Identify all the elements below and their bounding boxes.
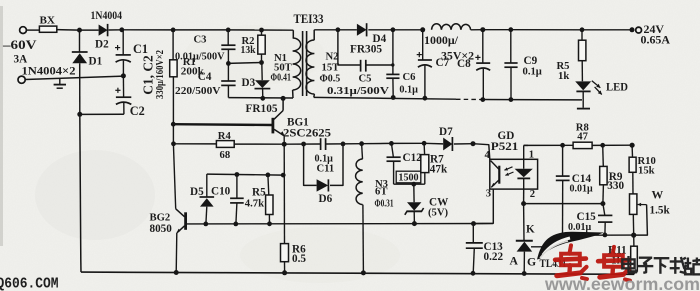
node C13 bottom	[471, 271, 476, 276]
capacitor C10	[236, 175, 238, 199]
resistor R11 1k	[633, 235, 635, 246]
svg-text:K: K	[526, 224, 535, 236]
svg-text:Φ0.41: Φ0.41	[271, 73, 292, 84]
svg-text:C7: C7	[436, 57, 450, 69]
node R2 bottom	[259, 60, 264, 65]
svg-text:2SC2625: 2SC2625	[283, 127, 331, 139]
svg-text:13k: 13k	[241, 45, 256, 56]
svg-text:C6: C6	[403, 72, 417, 83]
wire pin2 to R9 node	[524, 203, 603, 205]
wire C12 node to R7 node	[391, 142, 424, 144]
svg-text:15k: 15k	[638, 165, 655, 176]
wire emitter to C11	[284, 143, 320, 145]
svg-text:D2: D2	[95, 39, 109, 51]
svg-text:15T: 15T	[322, 63, 340, 74]
svg-text:P521: P521	[491, 141, 519, 153]
svg-text:3A: 3A	[14, 54, 28, 66]
wire D7 to C13 node	[454, 143, 473, 145]
diode D6 loop	[304, 144, 317, 185]
svg-text:C2: C2	[130, 104, 145, 118]
capacitor C13	[472, 224, 474, 243]
resistor R8 47	[573, 142, 592, 148]
svg-text:LED: LED	[606, 81, 628, 94]
potentiometer W 1.5k	[630, 194, 637, 215]
wire secondary bottom right	[483, 99, 582, 101]
wire R1 to base node	[173, 77, 175, 209]
wire R1 node to C3 node	[173, 29, 228, 31]
svg-text:R4: R4	[218, 131, 232, 142]
wire bottom rail	[81, 272, 634, 274]
svg-text:D5: D5	[190, 186, 204, 198]
svg-text:4.7k: 4.7k	[245, 198, 264, 209]
resistor R6 0.5	[281, 244, 289, 262]
capacitor C1	[122, 30, 124, 55]
optocoupler GD P521 box	[490, 159, 538, 189]
capacitor C11	[320, 138, 322, 150]
node C3 bottom	[226, 61, 231, 66]
diode D2 1N4004	[99, 25, 108, 36]
capacitor C9	[510, 30, 512, 63]
node BG2 emitter bottom	[174, 270, 179, 275]
svg-text:C8: C8	[457, 58, 471, 70]
wire C4 bottom to N1 bottom	[228, 97, 293, 99]
svg-text:0.01μ: 0.01μ	[568, 222, 592, 233]
node R6 bottom	[282, 270, 287, 275]
svg-text:Φ0.31: Φ0.31	[375, 199, 394, 210]
transistor BG1 2SC2625	[271, 118, 274, 134]
svg-text:0.31μ/500V: 0.31μ/500V	[327, 86, 390, 97]
wire C12 R7 bottoms	[394, 183, 425, 185]
wire middle base rail	[187, 223, 494, 225]
svg-text:BX: BX	[40, 16, 56, 27]
svg-text:–60V: –60V	[2, 38, 38, 52]
node base wire left	[171, 122, 176, 127]
svg-text:www.eeworm.com: www.eeworm.com	[544, 274, 700, 291]
svg-text:68: 68	[220, 150, 231, 161]
svg-text:8050: 8050	[150, 223, 173, 235]
diode D5	[206, 174, 208, 197]
svg-text:C1: C1	[133, 42, 148, 56]
svg-text:3: 3	[486, 188, 491, 199]
wire C3 node to R2 node	[228, 29, 261, 31]
LED arrows	[592, 81, 601, 88]
svg-text:1k: 1k	[558, 71, 569, 82]
node C2 bottom	[77, 112, 82, 117]
capacitor C7 1000u	[418, 59, 432, 61]
wire REF line	[562, 234, 634, 236]
svg-text:0.65A: 0.65A	[641, 33, 671, 47]
wire R8 left	[523, 144, 525, 146]
fuse BX	[39, 26, 56, 32]
wire D1 node down left rail	[80, 114, 81, 272]
capacitor C14	[562, 145, 564, 176]
label 1500 boxed	[396, 171, 421, 183]
capacitor C6	[392, 30, 394, 75]
wire pin2 node to K	[523, 204, 525, 241]
opto LED	[523, 145, 525, 168]
svg-text:FR105: FR105	[246, 103, 278, 115]
resistor R4 68	[174, 143, 217, 145]
wire output rail top	[582, 29, 632, 31]
wire C3 to R2 bottom	[228, 62, 261, 65]
svg-text:1N4004×2: 1N4004×2	[22, 66, 76, 78]
wire C9 node to R3 node	[511, 29, 582, 31]
svg-text:C5: C5	[359, 74, 372, 85]
wire emitter branch to R6	[283, 175, 285, 244]
wire D5 group top	[207, 174, 283, 175]
svg-text:47: 47	[577, 131, 588, 142]
resistor R1 200k	[172, 30, 174, 60]
opto light arrows	[504, 167, 512, 170]
node BG1 emitter	[282, 142, 287, 147]
ground stub	[59, 79, 61, 85]
wire TL431 gate	[531, 235, 562, 247]
wire opto pin3	[474, 189, 494, 224]
svg-text:C11: C11	[317, 164, 335, 175]
svg-text:D6: D6	[319, 193, 333, 205]
node TL431 anode bottom	[522, 271, 527, 276]
capacitor C15	[603, 204, 605, 216]
wire fuse to node X	[57, 29, 80, 32]
transformer secondary N2	[313, 30, 315, 40]
resistor R9 330	[602, 145, 605, 166]
svg-text:C4: C4	[198, 71, 212, 83]
svg-text:1N4004: 1N4004	[91, 9, 123, 22]
wire terminal to fuse	[27, 29, 40, 31]
node N3 bottom	[361, 270, 366, 275]
transformer primary N1	[292, 30, 294, 38]
wire opto pin2	[523, 189, 525, 204]
node D5 bottom	[203, 222, 208, 227]
watermark swoosh	[537, 232, 604, 260]
LED indicator	[575, 81, 591, 90]
wire node X to D2	[80, 29, 99, 31]
resistor R5 1k	[579, 40, 586, 61]
svg-text:D3: D3	[242, 77, 256, 89]
wire C1 node to R1 node	[122, 29, 173, 31]
terminal output 24V	[636, 27, 642, 33]
diode D3 FR105	[261, 63, 263, 81]
svg-text:1500: 1500	[398, 173, 418, 184]
wire BG1 collector	[282, 98, 284, 110]
capacitor C12	[391, 143, 393, 157]
svg-text:0.1μ: 0.1μ	[399, 85, 418, 96]
wire secondary bottom	[314, 97, 456, 99]
svg-text:1.5k: 1.5k	[650, 204, 671, 216]
svg-text:0.1μ: 0.1μ	[523, 67, 542, 78]
svg-text:220/500V: 220/500V	[175, 86, 221, 97]
svg-text:1000μ/: 1000μ/	[424, 35, 459, 47]
svg-text:1: 1	[529, 150, 534, 161]
svg-text:C1, C2: C1, C2	[140, 55, 155, 95]
svg-text:D1: D1	[89, 56, 103, 68]
svg-text:Φ0.5: Φ0.5	[320, 74, 341, 85]
svg-text:C10: C10	[211, 185, 231, 197]
node C1C2 midpoint	[121, 73, 126, 78]
diode D1 1N4004	[79, 30, 81, 51]
capacitor C5 snubber	[338, 30, 361, 65]
wire R2 node to N1 top corner	[262, 29, 294, 31]
svg-text:W: W	[652, 189, 664, 202]
capacitor C8 1000u	[482, 30, 484, 63]
svg-text:G: G	[527, 256, 536, 269]
svg-text:(5V): (5V)	[428, 207, 449, 218]
wire emitter branch down	[283, 144, 285, 175]
node C10 bottom	[233, 222, 238, 227]
resistor R5 4.7k	[267, 175, 270, 195]
terminal input live	[20, 27, 27, 34]
regulator TL431	[516, 240, 533, 242]
diode D7	[443, 138, 452, 151]
winding N3 feedback	[361, 144, 364, 159]
svg-text:0.01μ: 0.01μ	[570, 183, 594, 194]
resistor R7 47k	[423, 143, 426, 154]
capacitor C2	[122, 76, 124, 97]
svg-text:R5: R5	[252, 186, 266, 198]
node R5 bottom	[267, 221, 272, 226]
svg-text:C9: C9	[524, 55, 538, 67]
svg-text:330μ/160V×2: 330μ/160V×2	[155, 50, 166, 99]
svg-text:FR305: FR305	[350, 44, 382, 56]
svg-text:C3: C3	[194, 35, 207, 46]
wire rail to R10	[631, 145, 633, 157]
node R4 left	[171, 141, 176, 146]
zener CW 5V	[413, 184, 415, 202]
svg-text:Q606.COM: Q606.COM	[0, 276, 59, 291]
node CW bottom	[412, 221, 417, 226]
wire N2 top to D4	[314, 29, 357, 31]
capacitor C4	[227, 63, 229, 81]
svg-text:47k: 47k	[430, 163, 448, 175]
svg-text:D7: D7	[439, 126, 453, 138]
wire neutral to C1C2 midpoint	[25, 76, 123, 79]
svg-text:4: 4	[485, 150, 491, 161]
wire choke to C8 node	[471, 29, 483, 31]
transistor BG2 8050	[184, 212, 187, 230]
svg-text:A: A	[510, 255, 519, 268]
transformer core	[302, 31, 304, 96]
label C1 C2 rotated	[140, 55, 155, 95]
wire N3 node to C12 node	[362, 142, 392, 144]
svg-text:TEI33: TEI33	[294, 12, 324, 26]
terminal input neutral	[18, 76, 25, 83]
node C13 top	[471, 221, 476, 226]
wire D4 to C7 node	[368, 29, 422, 31]
watermark red bug 1	[555, 245, 587, 279]
diode D4 FR305	[357, 24, 367, 36]
svg-text:6T: 6T	[375, 187, 387, 198]
svg-text:0.5: 0.5	[292, 253, 306, 265]
svg-text:0.22: 0.22	[484, 251, 504, 263]
wire D2 to C1 node	[109, 29, 122, 31]
resistor R10 15k	[629, 157, 636, 172]
svg-text:2: 2	[530, 189, 535, 200]
wire C8 to C9 node	[483, 29, 511, 31]
svg-text:N2: N2	[326, 52, 339, 63]
wire C13 node to opto pin4	[473, 144, 490, 160]
wire secondary bottom dashed	[456, 98, 483, 100]
svg-text:0.01μ/500V: 0.01μ/500V	[175, 52, 225, 63]
resistor R2 13k	[261, 30, 263, 35]
opto phototransistor	[498, 166, 500, 184]
wire C2 bottom to left rail	[80, 113, 124, 115]
capacitor C3	[227, 30, 229, 45]
svg-text:C12: C12	[403, 152, 423, 164]
wire R7 node to D7	[424, 142, 443, 145]
watermark red bug 2	[598, 247, 630, 281]
watermark dianzi xiazaizhan	[622, 256, 700, 274]
svg-text:330: 330	[607, 180, 624, 192]
wire R8 segment	[524, 144, 573, 146]
wire C11 to N3 node	[326, 143, 361, 145]
filter choke L	[432, 24, 471, 30]
